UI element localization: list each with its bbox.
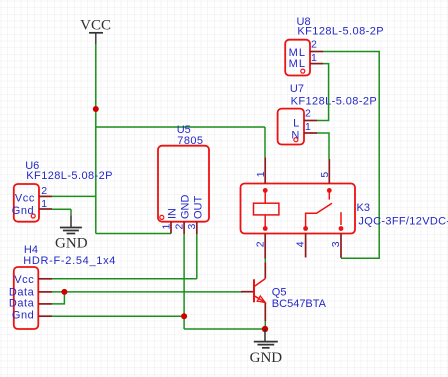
- svg-text:2: 2: [254, 241, 266, 247]
- svg-text:KF128L-5.08-2P: KF128L-5.08-2P: [291, 95, 378, 107]
- svg-text:1: 1: [305, 121, 311, 133]
- svg-text:Q5: Q5: [272, 287, 287, 299]
- pin1 indicator circle U6: [31, 214, 35, 218]
- pin 3 K3: [340, 234, 342, 258]
- pin1 indicator circle U7: [294, 138, 298, 142]
- svg-text:KF128L-5.08-2P: KF128L-5.08-2P: [26, 170, 113, 182]
- wire U7 pin1 to K3 pin5: [317, 133, 329, 159]
- svg-text:L: L: [293, 118, 299, 130]
- collector pin Q5: [264, 262, 266, 278]
- wire gnd bus to Q5 emitter: [184, 328, 265, 330]
- wire H4 Gnd to gnd bus: [52, 315, 184, 317]
- svg-text:5: 5: [319, 172, 331, 178]
- svg-text:2: 2: [41, 185, 47, 197]
- svg-text:Data: Data: [9, 298, 35, 310]
- wire to U5 IN pin1: [96, 233, 171, 235]
- pin 1 U6: [39, 208, 52, 210]
- base pin Q5: [241, 291, 254, 293]
- switch K3: [327, 188, 332, 193]
- svg-text:GND: GND: [180, 195, 192, 220]
- transistor Q5: [241, 262, 327, 321]
- pin 2 H4 Data: [38, 291, 52, 293]
- pin 4 K3: [305, 234, 307, 258]
- ground symbol under U6: [55, 209, 88, 252]
- coil K3: [263, 188, 268, 193]
- wire H4 Data to Q5 base: [52, 291, 243, 293]
- svg-text:Gnd: Gnd: [12, 310, 34, 322]
- pin 1 U5 IN: [170, 222, 172, 234]
- pin 4 H4 Gnd: [38, 315, 52, 317]
- relay K3: [241, 157, 448, 258]
- pin 2 U8: [310, 51, 323, 53]
- wire U5 GND pin down: [183, 234, 185, 329]
- wire U6 pin2 to VCC net: [52, 195, 96, 197]
- svg-text:Vcc: Vcc: [15, 192, 35, 204]
- header H4: [9, 244, 116, 329]
- transistor body Q5: [253, 279, 255, 302]
- svg-text:2: 2: [305, 108, 311, 120]
- wire U5 OUT down: [196, 234, 198, 279]
- wire U8 pin1 to U7 pin2: [317, 64, 329, 121]
- pin 2 K3: [264, 234, 266, 259]
- node junction data: [61, 289, 67, 295]
- svg-text:2: 2: [311, 39, 317, 51]
- svg-text:HDR-F-2.54_1x4: HDR-F-2.54_1x4: [23, 255, 116, 267]
- svg-text:1: 1: [160, 224, 172, 230]
- svg-text:3: 3: [330, 241, 342, 247]
- svg-text:IN: IN: [167, 208, 179, 219]
- ground symbol under Q5: [250, 329, 283, 366]
- wire Q5 emitter to gnd: [264, 321, 266, 329]
- pin1 indicator circle U5: [160, 215, 164, 219]
- svg-text:BC547BTA: BC547BTA: [272, 298, 327, 310]
- svg-text:K3: K3: [357, 202, 370, 214]
- emitter pin Q5: [264, 303, 266, 322]
- wire U6 pin1 to ground: [52, 208, 71, 210]
- pin 2 U7: [304, 120, 317, 122]
- svg-text:GND: GND: [55, 236, 88, 252]
- pin 2 U5 GND: [183, 222, 185, 234]
- node junction Q5 emitter gnd: [262, 326, 268, 332]
- svg-text:OUT: OUT: [192, 196, 204, 220]
- pin 1 U8: [310, 63, 323, 65]
- svg-text:ML: ML: [289, 58, 306, 70]
- svg-text:1: 1: [41, 198, 47, 210]
- pin 2 U6: [39, 195, 52, 197]
- svg-text:Vcc: Vcc: [14, 274, 34, 286]
- svg-text:1: 1: [311, 52, 317, 64]
- wire U8 pin2 to K3 pin3: [323, 52, 379, 259]
- wire K3 pin2 to Q5 collector: [264, 259, 266, 263]
- pin 1 U7: [304, 132, 317, 134]
- svg-text:JQC-3FF/12VDC-1ZS: JQC-3FF/12VDC-1ZS: [358, 216, 448, 228]
- pin 1 K3: [264, 157, 266, 183]
- pin 3 H4 Data: [38, 303, 52, 305]
- node junction VCC: [93, 106, 99, 112]
- pin1 indicator circle U8: [301, 69, 305, 73]
- wire down to K3 pin1: [264, 127, 266, 157]
- svg-text:ML: ML: [289, 47, 306, 59]
- regulator U5 7805: [158, 124, 209, 234]
- svg-text:4: 4: [295, 241, 307, 247]
- wire H4 Vcc to U5 OUT: [52, 278, 197, 280]
- wire VCC to K3 pin1 horizontal: [96, 126, 265, 128]
- VCC power symbol: [80, 17, 111, 44]
- svg-text:U7: U7: [290, 83, 304, 95]
- svg-text:KF128L-5.08-2P: KF128L-5.08-2P: [297, 25, 384, 37]
- svg-text:3: 3: [186, 224, 198, 230]
- pin 5 K3: [328, 159, 330, 184]
- connector U6: [12, 160, 113, 222]
- pin 1 H4 Vcc: [38, 278, 52, 280]
- pin 3 U5 OUT: [196, 222, 198, 234]
- node junction gnd bus: [181, 313, 187, 319]
- connector U7: [278, 83, 378, 145]
- connector U8: [285, 16, 384, 76]
- svg-text:1: 1: [255, 171, 267, 177]
- svg-text:GND: GND: [250, 350, 283, 366]
- svg-text:2: 2: [173, 224, 185, 230]
- svg-text:VCC: VCC: [80, 17, 111, 33]
- wire VCC vertical main: [95, 44, 97, 234]
- wire H4 Data2 join: [52, 292, 64, 304]
